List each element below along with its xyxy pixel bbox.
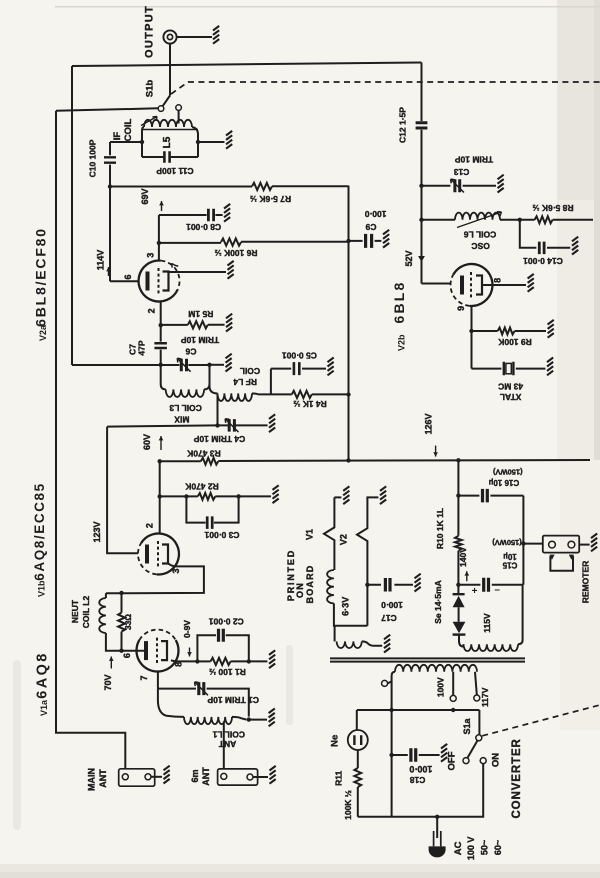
svg-text:R3 470K: R3 470K — [186, 449, 220, 459]
svg-text:–: – — [494, 584, 500, 595]
capacitor C7 47P — [154, 343, 167, 348]
resistor R3 on rail — [201, 458, 218, 465]
svg-text:C6: C6 — [185, 346, 196, 356]
svg-text:C4 TRIM 10P: C4 TRIM 10P — [193, 434, 245, 444]
wire plate line V2a with C10 — [109, 142, 111, 281]
page right edge shading — [557, 0, 600, 200]
dashed gang link S1b — [171, 82, 600, 94]
inductor L6 OSC COIL — [422, 219, 456, 221]
inductor L3 MIX COIL — [161, 365, 166, 390]
capacitor C2 loop — [197, 635, 248, 661]
winding 115V — [464, 644, 519, 651]
ground R1 — [269, 650, 275, 668]
ground L1 — [269, 709, 275, 727]
svg-text:ANT: ANT — [218, 739, 236, 749]
resistor R6 100K — [159, 242, 221, 244]
svg-text:(150WV): (150WV) — [492, 538, 522, 547]
node C9 junction — [346, 239, 350, 243]
resistor R7 5.6K — [110, 186, 252, 188]
svg-text:R5 1M: R5 1M — [188, 309, 213, 319]
ground C5 — [328, 358, 334, 376]
svg-text:Ne: Ne — [330, 735, 341, 747]
switch S1a — [478, 710, 480, 735]
svg-text:R9 100K: R9 100K — [497, 337, 531, 347]
svg-text:47P: 47P — [137, 340, 147, 355]
node tank junction — [159, 363, 163, 367]
wire C4 line — [107, 425, 268, 426]
capacitor C11 — [164, 151, 169, 163]
ground MAIN ANT — [164, 766, 170, 784]
svg-text:8: 8 — [492, 278, 502, 283]
capacitor C12 — [416, 123, 428, 128]
svg-text:52V: 52V — [404, 250, 414, 266]
svg-text:C2 0·001: C2 0·001 — [209, 616, 244, 626]
wire REMOTER to ground — [579, 544, 589, 546]
ground R2 — [273, 485, 279, 503]
svg-text:6: 6 — [123, 274, 133, 279]
svg-text:ON: ON — [295, 582, 305, 598]
svg-text:MAIN: MAIN — [87, 768, 97, 791]
IF transformer L5 — [144, 120, 192, 127]
svg-text:6m: 6m — [190, 769, 200, 782]
svg-text:COIL L2: COIL L2 — [81, 596, 91, 629]
ground R5 — [226, 314, 232, 332]
svg-text:C18: C18 — [410, 775, 426, 785]
svg-text:REMOTER: REMOTER — [581, 561, 591, 604]
winding 6-3V — [327, 570, 334, 603]
wire primary bus — [391, 680, 393, 817]
node R5 junction — [159, 323, 163, 327]
svg-text:8: 8 — [173, 662, 183, 667]
svg-text:R1 100 ½: R1 100 ½ — [209, 667, 246, 677]
svg-text:6BL8/ECF80: 6BL8/ECF80 — [33, 227, 49, 327]
wire MAIN ANT to ground — [151, 776, 162, 778]
trimmer C6 — [181, 359, 186, 371]
resistor R4 1K — [258, 393, 292, 395]
node R8 junction — [518, 218, 522, 222]
node grid-R2 — [158, 494, 162, 498]
connector MAIN ANT — [119, 769, 155, 786]
page bottom edge shading — [0, 864, 600, 878]
ground V2b cathode — [528, 274, 534, 292]
ground REMOTER — [591, 534, 597, 552]
ground C4 — [269, 414, 275, 432]
wire L4 left drop to C4 — [217, 394, 219, 425]
node cathode R1 — [195, 659, 199, 663]
wire S1b contact to IF coil tap — [178, 110, 180, 123]
resistor R2 470K — [160, 495, 198, 497]
connector REMOTER — [523, 543, 542, 545]
svg-text:COIL L6: COIL L6 — [464, 229, 497, 239]
wire output to ground — [177, 36, 212, 38]
svg-text:NEUT: NEUT — [70, 599, 80, 623]
svg-text:R4 1K ½: R4 1K ½ — [293, 399, 327, 409]
svg-text:TRIM 10P: TRIM 10P — [455, 154, 494, 164]
capacitor C3 loop — [186, 496, 238, 522]
svg-text:XTAL: XTAL — [500, 392, 522, 402]
inductor L2 NEUT COIL — [105, 593, 107, 598]
svg-text:6·3V: 6·3V — [340, 597, 350, 616]
inductor L1 ANT COIL — [184, 717, 232, 724]
svg-text:3: 3 — [146, 253, 156, 258]
wire V1b cathode return — [106, 564, 204, 594]
svg-text:C5 0·001: C5 0·001 — [282, 350, 317, 360]
ground C9 — [383, 230, 389, 248]
arrow 114V — [108, 267, 110, 276]
wire R10 branch — [457, 460, 459, 536]
svg-text:6AQ8: 6AQ8 — [35, 651, 51, 698]
svg-text:C9: C9 — [365, 222, 376, 232]
ground output — [213, 26, 219, 44]
wire V2b grid down — [471, 306, 473, 369]
svg-text:C17: C17 — [381, 613, 397, 623]
node remoter junction — [521, 541, 525, 545]
svg-text:Se 14·5mA: Se 14·5mA — [433, 580, 443, 623]
resistor R9 100K — [472, 330, 498, 332]
capacitor C17 — [367, 584, 413, 586]
wire L5 left to C10 — [110, 141, 142, 143]
wire 123V plate line — [107, 427, 138, 554]
ground XTAL — [547, 358, 553, 376]
svg-text:(150WV): (150WV) — [493, 468, 523, 477]
svg-text:S1a: S1a — [462, 717, 472, 734]
wire V1b grid up — [159, 461, 161, 533]
svg-text:126V: 126V — [424, 413, 434, 434]
capacitor C14 — [520, 220, 570, 248]
ground 6m ANT — [270, 766, 276, 784]
svg-text:6: 6 — [122, 653, 132, 658]
svg-text:R2 470K: R2 470K — [184, 482, 218, 492]
wire B+ 126V rail — [160, 460, 590, 461]
capacitor C16 10uF — [458, 495, 523, 497]
svg-text:COIL: COIL — [240, 366, 260, 376]
svg-text:C15: C15 — [502, 560, 517, 569]
winding shield — [334, 626, 336, 642]
svg-text:COIL: COIL — [123, 118, 134, 141]
trimmer C1 branch — [158, 689, 249, 717]
svg-text:114V: 114V — [96, 250, 106, 271]
heater loop V2 — [357, 497, 378, 625]
svg-text:117V: 117V — [480, 687, 490, 707]
svg-text:C1 TRIM 10P: C1 TRIM 10P — [207, 695, 259, 705]
winding primary — [395, 665, 477, 672]
lamp Ne neon — [356, 710, 358, 730]
trimmer C4 — [229, 419, 234, 432]
svg-text:100V: 100V — [436, 677, 446, 697]
svg-text:V2a: V2a — [38, 324, 48, 341]
wire osc loop bottom to mixer grid — [72, 364, 208, 366]
svg-text:3: 3 — [171, 568, 181, 573]
svg-text:2: 2 — [144, 523, 154, 528]
svg-text:100·0: 100·0 — [409, 764, 432, 774]
svg-text:C10 100P: C10 100P — [88, 139, 98, 177]
svg-text:TRIM 10P: TRIM 10P — [181, 335, 220, 345]
core arrow L6 — [457, 212, 502, 228]
svg-text:100·0: 100·0 — [381, 600, 403, 610]
node 140V junction — [456, 583, 460, 587]
ground C8 — [224, 204, 230, 222]
svg-text:140V: 140V — [458, 547, 468, 567]
svg-text:V2: V2 — [339, 534, 349, 545]
svg-text:123V: 123V — [92, 521, 102, 542]
svg-text:COIL L3: COIL L3 — [169, 403, 202, 413]
crystal XTAL 43MC — [472, 368, 546, 370]
svg-text:115V: 115V — [482, 613, 492, 633]
svg-text:L5: L5 — [162, 136, 173, 148]
ground C13 — [498, 175, 504, 193]
wire L1 tap to 6m ANT — [223, 722, 225, 769]
wire antenna line to S1b — [56, 108, 158, 111]
svg-text:BOARD: BOARD — [305, 565, 315, 604]
svg-text:C8 0·001: C8 0·001 — [186, 222, 221, 232]
transformer core — [330, 657, 525, 659]
ghost marks bottom left — [13, 645, 293, 830]
svg-text:0-9V: 0-9V — [182, 620, 192, 638]
svg-text:OFF: OFF — [447, 751, 458, 770]
node R6 junction — [157, 241, 161, 245]
inductor L4 RF COIL — [210, 365, 218, 394]
svg-text:COIL L1: COIL L1 — [212, 729, 245, 739]
svg-text:C16 10µ: C16 10µ — [488, 478, 519, 487]
svg-text:100·0: 100·0 — [364, 209, 386, 219]
svg-text:C13: C13 — [454, 167, 470, 177]
svg-text:9: 9 — [456, 306, 466, 311]
node rail-R10 — [456, 458, 460, 462]
connector 6m ANT — [218, 769, 258, 785]
svg-text:OUTPUT: OUTPUT — [144, 5, 156, 58]
tap 100V — [452, 672, 454, 695]
resistor R1 100 — [197, 660, 210, 662]
node R1-C2 right — [247, 659, 251, 663]
svg-text:70V: 70V — [103, 674, 113, 690]
tube V1b triode — [141, 533, 179, 574]
svg-text:R7 5·6K ½: R7 5·6K ½ — [250, 194, 291, 204]
dashed gang link S1a — [482, 705, 600, 736]
node 33ohm top — [119, 591, 123, 595]
svg-text:60V: 60V — [142, 434, 152, 450]
svg-text:R6 100K ½: R6 100K ½ — [215, 248, 258, 258]
wire osc plate — [422, 283, 452, 285]
wire V1a grid line — [158, 672, 184, 717]
node L5 left — [140, 140, 144, 144]
ground C14 — [572, 237, 578, 255]
plug AC — [436, 817, 438, 838]
svg-text:C11 100P: C11 100P — [156, 166, 194, 176]
page top edge line — [55, 6, 600, 8]
svg-text:V2b: V2b — [397, 334, 407, 351]
svg-text:C3 0·001: C3 0·001 — [204, 530, 239, 540]
tap 117V — [475, 672, 477, 695]
trimmer C13 — [422, 185, 497, 187]
ground shield — [384, 635, 390, 653]
svg-text:7: 7 — [170, 263, 180, 268]
node grid-rail — [158, 459, 162, 463]
wire osc vertical — [421, 63, 423, 284]
wire V2b cathode to ground — [483, 284, 527, 286]
capacitor C18 — [392, 754, 440, 756]
ground C18 — [441, 744, 447, 762]
svg-text:S1b: S1b — [145, 80, 156, 98]
svg-text:IF: IF — [112, 132, 123, 141]
wire output down to switch pole — [169, 44, 171, 96]
wire left osc loop — [71, 66, 73, 365]
svg-text:10µ: 10µ — [503, 552, 517, 561]
ground R9 — [548, 320, 554, 338]
resistor R11 100K — [357, 750, 359, 768]
svg-text:43 MC: 43 MC — [498, 381, 523, 391]
tube V1a triode — [136, 640, 178, 671]
node plate junction — [108, 184, 112, 188]
svg-text:50~: 50~ — [480, 840, 490, 855]
wire V2a grid line — [160, 302, 162, 365]
svg-text:2: 2 — [147, 308, 157, 313]
wire switch feed — [357, 709, 480, 711]
wire B+ rail vertical — [348, 186, 350, 461]
rectifier Se — [457, 585, 459, 594]
svg-text:R8 5·6K ½: R8 5·6K ½ — [532, 203, 573, 213]
node 33ohm bottom — [119, 649, 123, 653]
svg-text:R11: R11 — [334, 770, 344, 785]
capacitor C8 — [159, 214, 223, 216]
svg-text:7: 7 — [139, 675, 149, 680]
svg-text:R10 1K 1L: R10 1K 1L — [435, 508, 445, 549]
connector J1 OUTPUT — [163, 30, 176, 43]
svg-text:MIX: MIX — [174, 415, 189, 425]
svg-text:OSC: OSC — [471, 241, 489, 251]
heater loop V1 — [334, 496, 341, 498]
wire L1 to ground — [249, 719, 267, 721]
resistor R5 1M — [161, 324, 188, 326]
wire to V2a plate — [110, 280, 138, 282]
node C16 — [456, 493, 460, 497]
node R2-C3 left — [184, 494, 188, 498]
svg-text:6AQ8/ECC85: 6AQ8/ECC85 — [32, 482, 47, 581]
terminal primary end — [382, 680, 388, 686]
node L6 junction — [419, 218, 423, 222]
node C17 — [365, 583, 369, 587]
capacitor C5 — [271, 369, 326, 395]
svg-text:ON: ON — [491, 753, 502, 767]
svg-text:ANT: ANT — [98, 769, 108, 788]
resistor 33 ohm — [121, 593, 123, 613]
ground C17 — [415, 574, 421, 592]
svg-text:C12 1·5P: C12 1·5P — [398, 107, 408, 143]
node R4 to rail — [346, 392, 350, 396]
wire top bus — [72, 63, 422, 67]
core arrow L5 — [141, 117, 157, 126]
resistor R8 5-6K — [535, 216, 553, 223]
svg-text:ANT: ANT — [201, 767, 211, 786]
wire V2a screen line — [158, 215, 160, 260]
svg-text:C14 0·001: C14 0·001 — [523, 256, 563, 266]
wire ON to AC rail — [358, 764, 483, 817]
svg-text:V1a: V1a — [39, 699, 49, 716]
node C4 junction — [215, 423, 219, 427]
svg-text:+: + — [472, 586, 478, 597]
ground L5 — [226, 131, 232, 149]
node rail-348 — [346, 458, 350, 462]
ground V2a cathode — [228, 261, 234, 279]
wire C16 down — [522, 496, 524, 585]
wire V1a cathode — [171, 660, 198, 661]
tube V2a pentode — [139, 261, 178, 302]
switch S1b — [163, 96, 170, 107]
node R2-C3 right — [236, 494, 240, 498]
ground tank — [226, 354, 232, 372]
svg-text:RF L4: RF L4 — [233, 377, 257, 387]
node L5 right — [196, 140, 200, 144]
wire antenna line B down — [56, 111, 125, 769]
capacitor C9 — [349, 240, 382, 242]
svg-text:100K ½: 100K ½ — [343, 790, 353, 820]
svg-text:69V: 69V — [140, 188, 150, 204]
wire V2a cathode to ground — [169, 271, 226, 273]
capacitor C10 — [104, 157, 116, 162]
tube V2b triode — [453, 264, 492, 306]
svg-text:60~: 60~ — [493, 840, 503, 855]
svg-text:AC: AC — [453, 841, 464, 855]
svg-text:100 V: 100 V — [466, 837, 476, 861]
capacitor C15 10uF — [458, 584, 523, 586]
node C13 junction — [419, 184, 423, 188]
node L1 right — [247, 717, 251, 721]
node R9 — [469, 329, 473, 333]
svg-text:CONVERTER: CONVERTER — [511, 738, 523, 818]
svg-text:V1b: V1b — [37, 580, 47, 597]
wire L5 right to ground — [198, 141, 225, 143]
svg-text:33Ω: 33Ω — [123, 614, 133, 630]
svg-text:V1: V1 — [305, 529, 315, 540]
wire tank to ground — [210, 364, 225, 366]
svg-text:6BL8: 6BL8 — [391, 280, 407, 323]
wire 6m ANT to ground — [253, 776, 268, 778]
